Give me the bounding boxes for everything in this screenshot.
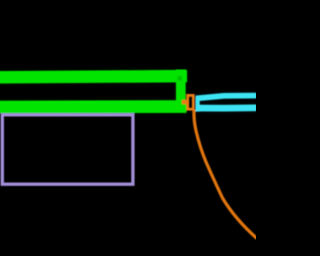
dark speck inside green corner [177,76,182,80]
glow layer [0,70,257,111]
cyan rectangle : bottom bar [196,105,257,112]
orange curved tail [194,110,257,239]
purple rectangle [2,115,133,184]
orange stub to green [182,100,188,105]
green rectangle (open at left) : top bar [0,76,187,77]
green rectangle : bottom bar [0,100,187,113]
main shapes, slightly softened [0,70,257,239]
cyan rectangle : top bar [196,96,257,99]
small orange rectangle [188,95,194,109]
green rectangle : right bar [176,70,186,112]
cyan rectangle (open at right) : left bar [196,97,200,111]
